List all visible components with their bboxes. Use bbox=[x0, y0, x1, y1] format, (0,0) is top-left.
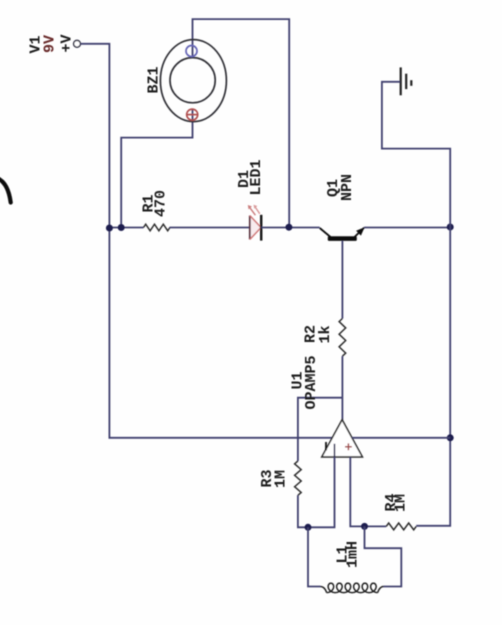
resistor R1 bbox=[144, 224, 170, 231]
wire L1 left branch bbox=[308, 527, 321, 586]
wire buzzer top to vertical branch bbox=[193, 19, 290, 227]
wire Q1 base down to R2 bbox=[341, 241, 343, 319]
svg-text:1mH: 1mH bbox=[345, 541, 362, 568]
svg-text:9V: 9V bbox=[42, 35, 59, 53]
wire buzzer bottom to R1 row bbox=[121, 109, 192, 228]
svg-text:1M: 1M bbox=[393, 494, 410, 512]
svg-text:1k: 1k bbox=[317, 325, 334, 343]
diode D1 LED1 bbox=[248, 205, 261, 241]
wire plus input down to R4 row bbox=[350, 457, 386, 527]
buzzer BZ1 bbox=[160, 40, 226, 122]
wire rail to R1 bbox=[109, 227, 143, 229]
wire Q1 emitter to right rail bbox=[364, 227, 450, 229]
junction dot emitter/rail bbox=[447, 224, 454, 231]
junction dot node LED/branch bbox=[285, 224, 292, 231]
wire +V rail (node to left rail, down, right to op-amp V- pin) bbox=[81, 44, 333, 438]
wire L1 right branch bbox=[365, 526, 402, 586]
junction dot buzzer branch / R1 row bbox=[118, 224, 125, 231]
resistor R4 bbox=[386, 523, 416, 530]
ground symbol bbox=[401, 67, 412, 95]
svg-text:470: 470 bbox=[153, 190, 170, 217]
junction dot plus row / L1 branch bbox=[361, 523, 368, 530]
svg-text:NPN: NPN bbox=[339, 174, 356, 201]
wire R3 bottom to minus input bbox=[298, 457, 335, 527]
svg-text:OPAMP5: OPAMP5 bbox=[303, 355, 320, 409]
op-amp U1 bbox=[322, 420, 363, 457]
wire LED1 to Q1 collector bbox=[261, 227, 320, 229]
junction dot +V rail / R1 row bbox=[106, 225, 113, 232]
resistor R3 bbox=[295, 461, 302, 495]
svg-text:+V: +V bbox=[59, 34, 76, 52]
wire op-amp V+ pin to right rail bbox=[352, 437, 450, 439]
node +V terminal bbox=[74, 40, 81, 47]
svg-text:LED1: LED1 bbox=[248, 159, 265, 195]
junction dot R3 row / L1 branch bbox=[305, 524, 312, 531]
junction dot op-amp V+ rail bbox=[447, 434, 454, 441]
wire branch to R3 top bbox=[298, 398, 343, 461]
transistor Q1 bbox=[320, 227, 365, 241]
wire R2 to op-amp output apex with branch to R3 bbox=[341, 356, 343, 420]
svg-text:BZ1: BZ1 bbox=[146, 66, 163, 93]
wire ground to right rail (down to R4) bbox=[382, 82, 450, 526]
svg-text:1M: 1M bbox=[273, 470, 290, 488]
resistor R2 bbox=[339, 319, 346, 357]
stray pen mark (black arc, left edge) bbox=[0, 179, 11, 203]
inductor L1 bbox=[321, 583, 384, 592]
wire R1 to LED1 bbox=[170, 227, 250, 229]
